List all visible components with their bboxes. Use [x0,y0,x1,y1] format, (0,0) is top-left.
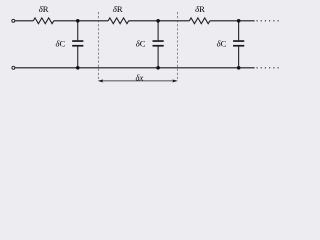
wire bottom rail [15,67,255,69]
capacitor C1 plates [72,41,83,46]
dashed section boundary left [97,12,99,81]
wire top rail dotted continuation [257,20,282,22]
wire bottom rail dotted continuation [257,67,282,69]
svg-text:δC: δC [55,38,65,48]
capacitor C1 bottom lead wire [77,47,79,68]
capacitor C3 bottom lead wire [238,47,240,68]
capacitor C3 plates [233,41,244,46]
dimension arrowhead right [172,79,178,82]
wire top rail: R1 to node A [54,20,108,22]
dimension arrow line (δx span) [101,80,175,82]
svg-text:δR: δR [113,4,123,14]
capacitor C1 (δC) top lead wire [77,21,79,41]
dashed section boundary right [177,12,179,81]
svg-text:δR: δR [195,4,205,14]
dimension arrowhead left [98,79,104,82]
resistor R3 (δR) [189,18,210,24]
svg-text:δR: δR [39,4,49,14]
capacitor C2 plates [153,41,164,46]
wire top rail: R3 to continuation [210,20,255,22]
node C bottom junction dot [237,66,241,70]
node B bottom junction dot [156,66,160,70]
svg-text:δC: δC [217,38,227,48]
node A bottom junction dot [76,66,80,70]
node B top junction dot [156,19,160,23]
wire top rail: terminal to R1 [15,20,33,22]
node A top junction dot [76,19,80,23]
capacitor C2 bottom lead wire [157,47,159,68]
node C top junction dot [237,19,241,23]
wire top rail: R2 to node B [129,20,190,22]
resistor R2 (δR) [108,18,129,24]
terminal T2 (bottom-left open circle) [12,66,15,69]
terminal T1 (top-left open circle) [12,19,15,22]
resistor R1 (δR) [33,18,54,24]
capacitor C2 (δC) top lead wire [157,21,159,41]
svg-text:δC: δC [136,38,146,48]
svg-text:δx: δx [135,73,143,83]
capacitor C3 (δC) top lead wire [238,21,240,41]
